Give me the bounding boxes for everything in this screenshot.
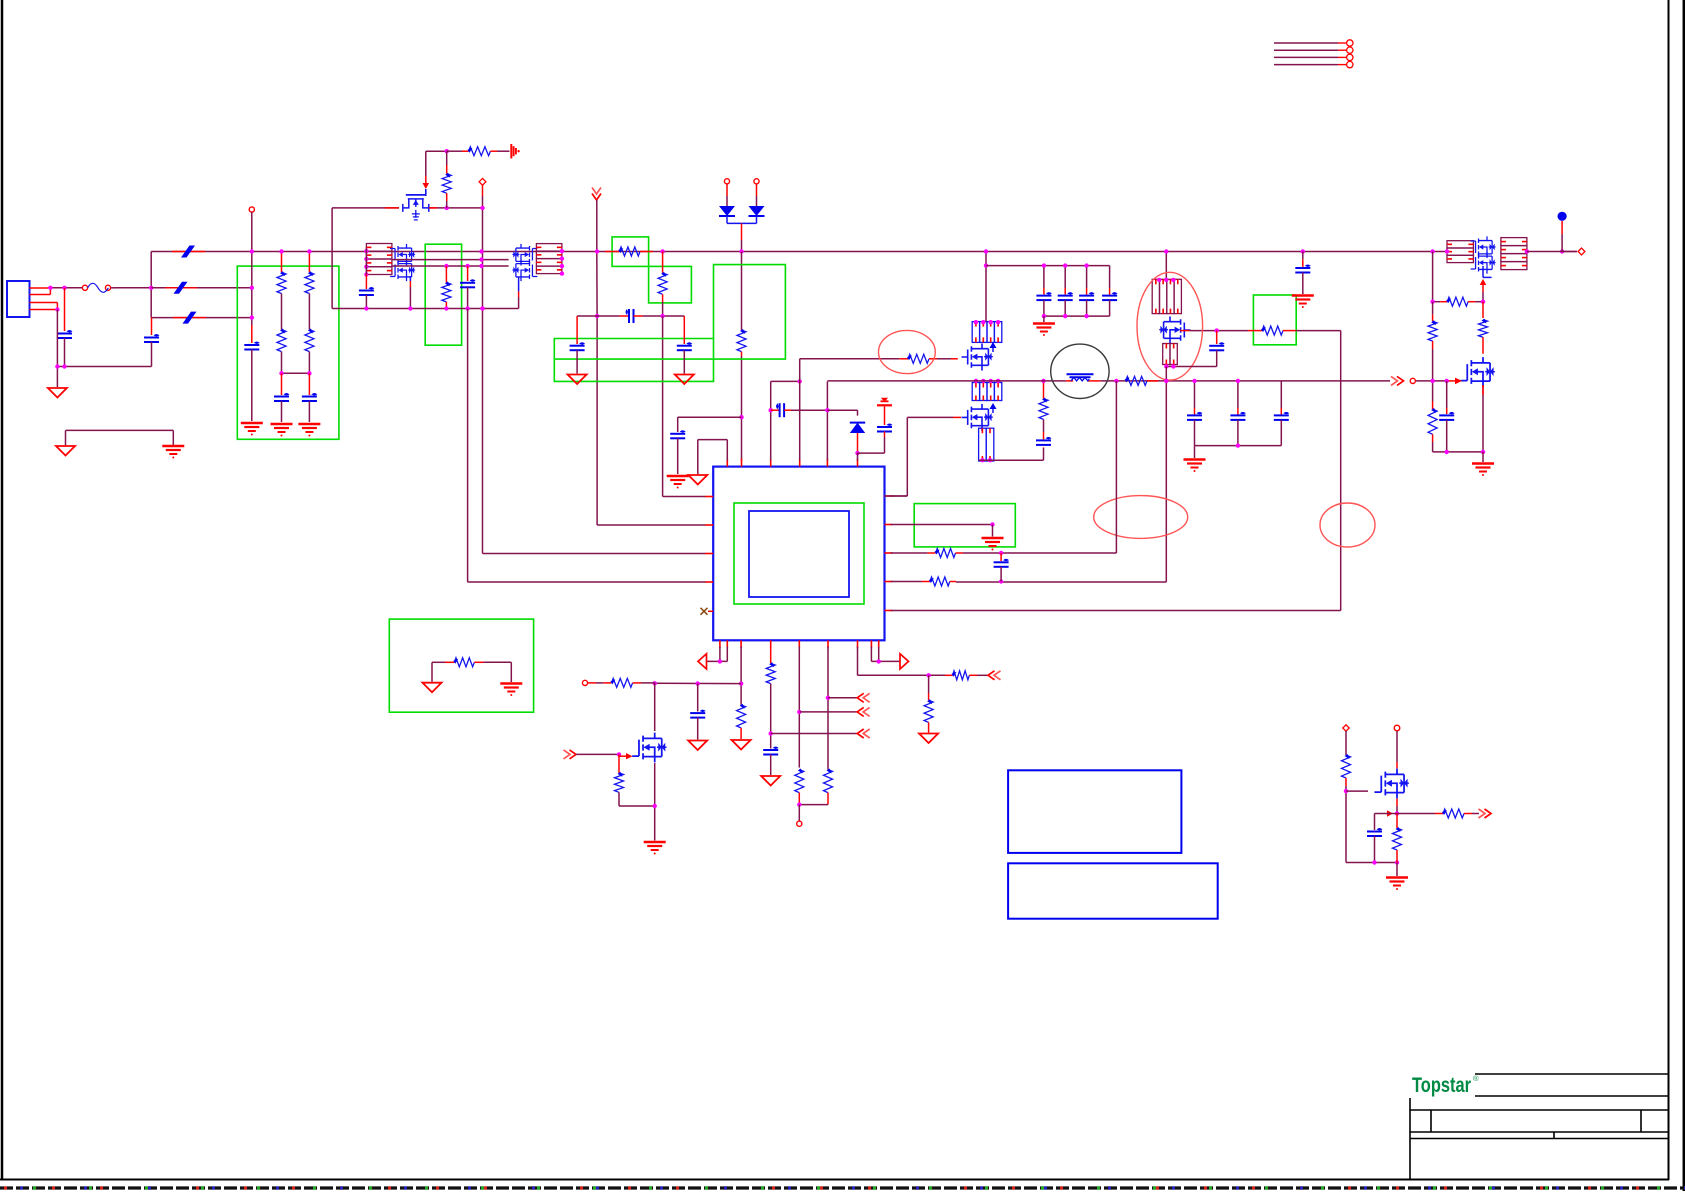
title block left border xyxy=(1409,1098,1411,1180)
M4 gate wire xyxy=(1190,330,1249,332)
highlight box R6 xyxy=(649,266,692,303)
package K8 xyxy=(1501,238,1527,246)
K3 top dots xyxy=(974,320,1001,324)
capacitor bank cap xyxy=(1102,295,1117,297)
resistor R20 xyxy=(766,663,775,683)
ground GND7 xyxy=(688,741,707,751)
capacitor bank cap xyxy=(1079,295,1094,297)
Q1 source tail xyxy=(409,276,411,281)
capacitor C11 xyxy=(877,426,892,428)
T2 stub xyxy=(482,185,484,196)
earth ground E7 xyxy=(1472,462,1494,464)
cap drop red xyxy=(1043,288,1045,295)
VBUS joints xyxy=(1114,379,1168,383)
R8 top lead xyxy=(1043,381,1045,399)
M3 gate pin xyxy=(953,416,961,418)
C12 top lead xyxy=(1043,432,1045,439)
ground GND2 xyxy=(56,446,75,456)
VBUS rail xyxy=(827,380,1448,382)
resistor R11 xyxy=(1447,297,1468,306)
off-page connector P5 xyxy=(857,707,864,716)
vbus caps return xyxy=(1195,445,1282,447)
snubber rail xyxy=(332,308,518,310)
earth ground Ey xyxy=(271,423,293,425)
C19 joints xyxy=(1372,860,1399,864)
R24 bottom lead xyxy=(928,722,930,732)
x467 net xyxy=(468,309,706,583)
x799 bottom xyxy=(798,647,800,768)
transistor feed wire xyxy=(655,682,741,684)
R26 joint xyxy=(1344,789,1348,793)
cap drop low xyxy=(1086,300,1088,316)
cap drop red xyxy=(1086,288,1088,295)
vbus cap drop red xyxy=(1280,408,1282,415)
R18 feed xyxy=(596,682,603,684)
cap C3 bottom lead xyxy=(251,350,253,422)
R6 bottom lead xyxy=(662,294,664,302)
cap C17 top lead xyxy=(697,684,699,712)
resistor R7 lead R xyxy=(929,358,937,360)
transistor M1 xyxy=(403,190,429,220)
title block row line 3 xyxy=(1410,1138,1669,1140)
cap C7 top lead xyxy=(576,316,578,344)
IC U1 highlight xyxy=(734,503,864,604)
sheet frame bottom border xyxy=(0,1179,1669,1181)
resistor R25 xyxy=(454,658,474,667)
diode bus joint xyxy=(739,249,743,253)
R6 to y316 xyxy=(662,302,664,316)
title block row line 1 xyxy=(1410,1109,1669,1111)
R7 feed R xyxy=(937,358,951,360)
off-page connector P2 xyxy=(1397,376,1404,385)
cap drop red xyxy=(1064,288,1066,295)
R15 wire xyxy=(963,381,1116,553)
resistor R16 lead R xyxy=(950,581,956,583)
title block top rule xyxy=(1475,1073,1669,1075)
K1 pin dots xyxy=(364,249,368,277)
R17 bottom lead xyxy=(740,728,742,739)
connector J2 header pins xyxy=(1274,40,1353,68)
off-page connector P7 xyxy=(988,671,995,680)
R3 bottom lead xyxy=(446,201,448,208)
R bridge xyxy=(799,804,828,806)
terminal T2 xyxy=(479,178,486,185)
AC line N row xyxy=(151,287,252,289)
x1166 continue xyxy=(956,367,1166,583)
resistor R5 lead L xyxy=(605,251,619,253)
title block cell divider left xyxy=(1430,1110,1432,1132)
M5 gate tail xyxy=(1482,266,1484,277)
cap drop low xyxy=(1043,300,1045,316)
note box 2 xyxy=(1008,863,1218,918)
connector J1 pin leads xyxy=(30,288,58,310)
terminal T8 xyxy=(1394,725,1400,731)
ferrite slash L xyxy=(172,251,205,253)
package K3 xyxy=(972,322,979,343)
D3 joint xyxy=(855,451,859,455)
resistor R11 lead R xyxy=(1468,301,1475,303)
y358 gate wire xyxy=(800,358,900,360)
relay package K1 xyxy=(366,244,392,252)
x597 joints xyxy=(595,249,599,318)
M5 gate drop xyxy=(1482,292,1484,302)
cap C3 top lead xyxy=(251,325,253,343)
bottom pins tie R xyxy=(871,647,900,662)
tfeed joints xyxy=(653,681,700,686)
resistor R13 xyxy=(1428,409,1437,434)
R15 joint xyxy=(999,551,1003,555)
highlight box bulk caps xyxy=(554,265,785,382)
x799b joint xyxy=(797,710,801,714)
wire J1 to fuse xyxy=(48,287,82,289)
Q4 gate wire xyxy=(1346,790,1368,792)
ground GND9 xyxy=(919,734,938,744)
R12 bottom red xyxy=(1432,341,1434,349)
diode D1 xyxy=(719,206,735,216)
IC U1 pins xyxy=(705,459,892,649)
ground GND10 xyxy=(423,683,442,693)
earth ground E1 xyxy=(162,445,184,447)
resistor R16 xyxy=(930,577,950,586)
M4 gate joint xyxy=(1215,328,1219,332)
resistor R10 lead R xyxy=(1283,330,1296,332)
K1 left pins tie xyxy=(365,247,367,274)
diode pair tie xyxy=(726,216,728,223)
vbus cap low xyxy=(1237,420,1239,446)
resistor R12 xyxy=(1428,321,1437,341)
R23 wire xyxy=(977,674,988,676)
capacitor C3 xyxy=(244,344,259,346)
resistor R9 lead xyxy=(1147,380,1158,382)
wire R divider B middle xyxy=(308,294,310,330)
C12 to R8 xyxy=(1043,419,1045,432)
R12 top lead xyxy=(1432,315,1434,322)
transistor M6 xyxy=(1460,357,1494,387)
vbus cap drop xyxy=(1237,381,1239,408)
R27 out wire xyxy=(1472,813,1479,815)
wire T1 down xyxy=(251,212,253,325)
transistor M2 xyxy=(962,344,993,371)
cap drop xyxy=(1109,266,1111,288)
tie R dot xyxy=(877,659,881,663)
transistor M3 xyxy=(962,404,993,431)
resistor R7 pin R xyxy=(951,358,958,360)
x482 vertical xyxy=(483,196,706,554)
resistor R27 lead L xyxy=(1435,813,1443,815)
ground GND8 xyxy=(761,776,780,786)
K3 feeder xyxy=(985,252,987,322)
resistor R8 xyxy=(1039,399,1048,420)
title block logo underline xyxy=(1475,1095,1669,1097)
cap C14 top lead xyxy=(1302,252,1304,260)
C15 bottom lead xyxy=(1446,420,1448,452)
M1 drain joint xyxy=(445,206,449,210)
x770b joint xyxy=(769,731,773,735)
wire R divider A middle xyxy=(281,294,283,330)
package K7 xyxy=(1447,241,1473,248)
resistor R19 xyxy=(615,773,624,792)
K2 pin dots xyxy=(560,249,564,276)
R3 bottom red xyxy=(446,193,448,201)
gate pullup joint xyxy=(445,149,449,153)
cap C10 right lead xyxy=(784,409,791,411)
R14 bottom lead xyxy=(1482,337,1484,354)
tie L dot xyxy=(718,659,722,663)
vbus cap drop xyxy=(1280,381,1282,408)
x662 to IC pin xyxy=(663,316,706,497)
agnd drop xyxy=(992,525,994,537)
wire bus to R divider A xyxy=(281,252,283,273)
ground GND1 xyxy=(48,388,67,398)
resistor R15 lead R xyxy=(956,552,964,554)
capacitor C15 xyxy=(1439,414,1454,416)
x827 joint xyxy=(825,408,829,412)
resistor R17 xyxy=(737,705,746,728)
resistor R6 xyxy=(658,273,667,294)
off-page connector P4 xyxy=(857,729,864,738)
x741 drop xyxy=(741,252,743,331)
C19 bottom xyxy=(1374,836,1376,863)
capacitor bank cap2 xyxy=(1274,414,1289,416)
cap lead xyxy=(308,373,310,395)
cap C14 red xyxy=(1302,259,1304,267)
vbus gnd drop xyxy=(1194,446,1196,458)
terminal T4 xyxy=(1578,248,1585,255)
diode D2 xyxy=(749,206,765,216)
capacitor C9 xyxy=(670,433,685,435)
Q3 gate wire xyxy=(576,754,619,756)
shunt left wire xyxy=(432,662,445,681)
caps feeder xyxy=(986,265,1110,267)
capacitor C13 xyxy=(1209,345,1224,347)
R4 bottom lead xyxy=(741,352,743,356)
resistor R11 lead L xyxy=(1440,301,1447,303)
vbus cap drop xyxy=(1194,381,1196,408)
cap C1 bottom lead xyxy=(64,338,66,367)
x770 bottom xyxy=(770,647,772,664)
capacitor C6 xyxy=(628,309,630,323)
resistor R5 lead R xyxy=(640,251,653,253)
connector J1 xyxy=(7,281,30,317)
x857 top xyxy=(827,410,857,415)
C7 bottom lead xyxy=(576,350,578,373)
Q2 gate tail xyxy=(518,277,520,291)
highlight ellipse net xyxy=(1320,503,1375,547)
capacitor Cy xyxy=(274,396,289,398)
K4 bus dots xyxy=(974,379,1001,383)
capacitor C19 xyxy=(1367,831,1382,833)
capacitor bank cap xyxy=(1058,295,1073,297)
package K5 xyxy=(979,428,987,461)
power symbol PWR2 xyxy=(877,404,892,406)
thermistor RT1 xyxy=(1066,380,1073,382)
terminal diode D2 xyxy=(754,179,759,184)
resistor R21 xyxy=(795,770,804,793)
R bridge joint xyxy=(797,802,801,806)
R11 feed L xyxy=(1433,301,1441,303)
x828b joint xyxy=(826,696,830,700)
phase row joints xyxy=(479,249,483,268)
R3 top tie2 xyxy=(446,161,448,165)
direction triangle R xyxy=(900,654,909,669)
x857 bottom xyxy=(858,647,946,676)
M6 gnd drop xyxy=(1482,452,1484,462)
resistor R23 lead R xyxy=(969,674,977,676)
C9 bottom lead xyxy=(677,438,679,474)
resistor R4 xyxy=(737,330,746,352)
R24 top red xyxy=(928,693,930,700)
shunt right wire xyxy=(484,662,512,682)
C16 bottom lead xyxy=(1000,567,1002,582)
resistor R27 lead R xyxy=(1464,813,1472,815)
highlight box snubber xyxy=(425,244,461,345)
terminal T6 xyxy=(797,821,802,826)
power symbol PWR1 xyxy=(510,144,512,159)
R6 top lead xyxy=(662,252,664,273)
resistor R15 lead L xyxy=(928,552,936,554)
cap drop low xyxy=(1109,300,1111,316)
R10 wire to x1340 xyxy=(891,331,1341,611)
resistor R27 xyxy=(1443,809,1464,818)
ground GND4 xyxy=(675,375,694,385)
y316 rail xyxy=(577,315,684,317)
resistor R2 lead L xyxy=(462,150,469,152)
off-page connector P3 xyxy=(570,750,577,759)
pi top link xyxy=(771,380,800,382)
resistor R divider B lower xyxy=(305,330,314,352)
M1 source pin xyxy=(385,207,399,209)
R2 feed xyxy=(447,150,462,152)
x770 riser xyxy=(770,381,772,460)
Q4 source xyxy=(1396,799,1398,807)
earth ground E10 xyxy=(500,682,522,684)
R14 top lead xyxy=(1482,302,1484,318)
cap C10 left lead xyxy=(771,409,780,411)
resistor R7 xyxy=(908,354,929,363)
schematic sheet frame left border xyxy=(1,0,4,1180)
R19 top lead xyxy=(618,754,620,773)
node A vertical xyxy=(150,252,152,318)
R28 bottom lead xyxy=(1396,850,1398,863)
T6 stub xyxy=(798,805,800,821)
highlight ellipse R7 xyxy=(879,330,936,373)
resistor R23 lead L xyxy=(945,674,953,676)
wire fuse to node A xyxy=(111,287,152,289)
bottom return wire xyxy=(57,366,151,368)
C13 bottom lead xyxy=(1166,350,1216,366)
R20 bottom xyxy=(770,684,772,749)
D3 anode lead xyxy=(857,433,859,451)
R27 wire xyxy=(1397,813,1435,815)
capacitor C7 xyxy=(570,345,585,347)
bottom pins tie L xyxy=(707,647,727,662)
transistor Q4 xyxy=(1374,769,1408,799)
capacitor C2 xyxy=(144,337,159,339)
junction J1 outputs xyxy=(48,286,66,312)
R11 feed R xyxy=(1475,301,1483,303)
capacitor bank cap xyxy=(1036,295,1051,297)
T7 drop xyxy=(1345,731,1347,755)
ferrite slash PE xyxy=(173,317,206,319)
C17 bottom lead xyxy=(697,718,699,740)
Q3 gate pin xyxy=(626,753,633,759)
x1166 vbus joint xyxy=(1164,379,1168,383)
terminal T7 xyxy=(1343,725,1349,731)
title block cell divider right xyxy=(1640,1110,1642,1132)
highlight box shunt xyxy=(389,619,533,712)
Q3 gate joint xyxy=(617,752,621,756)
R19 bottom lead xyxy=(619,792,655,806)
highlight ellipse agnd xyxy=(1094,496,1188,539)
T8 drop xyxy=(1396,731,1398,762)
capacitor C5 xyxy=(460,282,475,284)
cap drop xyxy=(1086,266,1088,288)
cap C1 top lead xyxy=(64,288,66,331)
snubber rail joints xyxy=(364,306,485,310)
sheet frame right inner border xyxy=(1668,0,1670,1180)
capacitor C8 xyxy=(677,345,692,347)
wire R divider B lower lead xyxy=(308,352,310,374)
cap C5 top lead xyxy=(467,266,469,281)
PWR2 stub xyxy=(884,407,886,426)
vbus cap dots xyxy=(1192,379,1240,383)
M6 source drop xyxy=(1482,385,1484,452)
R16 feed xyxy=(891,581,922,583)
agnd wire xyxy=(891,524,993,526)
M6 gate wire xyxy=(1448,380,1455,382)
x770 joints xyxy=(769,379,802,412)
C10 to x827 xyxy=(791,409,827,411)
return junctions xyxy=(55,364,66,368)
caps feeder dots xyxy=(1042,263,1089,267)
divider cross wire xyxy=(282,372,310,374)
resistor R10 lead L xyxy=(1248,330,1262,332)
highlight box R10 xyxy=(1253,295,1296,345)
x741 to IC xyxy=(741,356,743,461)
off-page connector P1 xyxy=(592,194,601,201)
bus right tail xyxy=(1562,251,1577,253)
x907 drop xyxy=(885,417,908,496)
capacitor C12 xyxy=(1036,439,1051,441)
x799 riser xyxy=(799,359,801,461)
x1432 drop3 xyxy=(1432,381,1434,401)
M6 bottom dots xyxy=(1445,450,1486,454)
IC U1 die xyxy=(749,511,849,597)
D3 to IC xyxy=(857,453,859,460)
title block row line 2 xyxy=(1410,1131,1669,1133)
R15 feed xyxy=(891,552,928,554)
transistor M5 pair xyxy=(1471,236,1496,258)
package K6b xyxy=(1163,344,1170,365)
bus right joints xyxy=(1430,249,1564,253)
resistor R2 lead R xyxy=(490,150,497,152)
R18 feed red xyxy=(588,682,596,684)
resistor R18 lead R xyxy=(633,682,641,684)
cap C12 leads xyxy=(1043,446,1045,449)
terminal T5 xyxy=(582,680,587,685)
R3 top tie xyxy=(446,151,448,161)
R12 bottom lead xyxy=(1432,349,1434,381)
capacitor Cy xyxy=(302,396,317,398)
resistor R9 xyxy=(1126,376,1147,385)
gnd wire J1 xyxy=(56,310,58,388)
sheet frame right outer border xyxy=(1683,0,1685,1191)
IC U1 body xyxy=(713,467,884,641)
R13 bottom red xyxy=(1432,434,1434,442)
agnd joint xyxy=(990,522,994,526)
capacitor C1 xyxy=(57,333,72,335)
node VOUT dot xyxy=(1558,212,1567,221)
